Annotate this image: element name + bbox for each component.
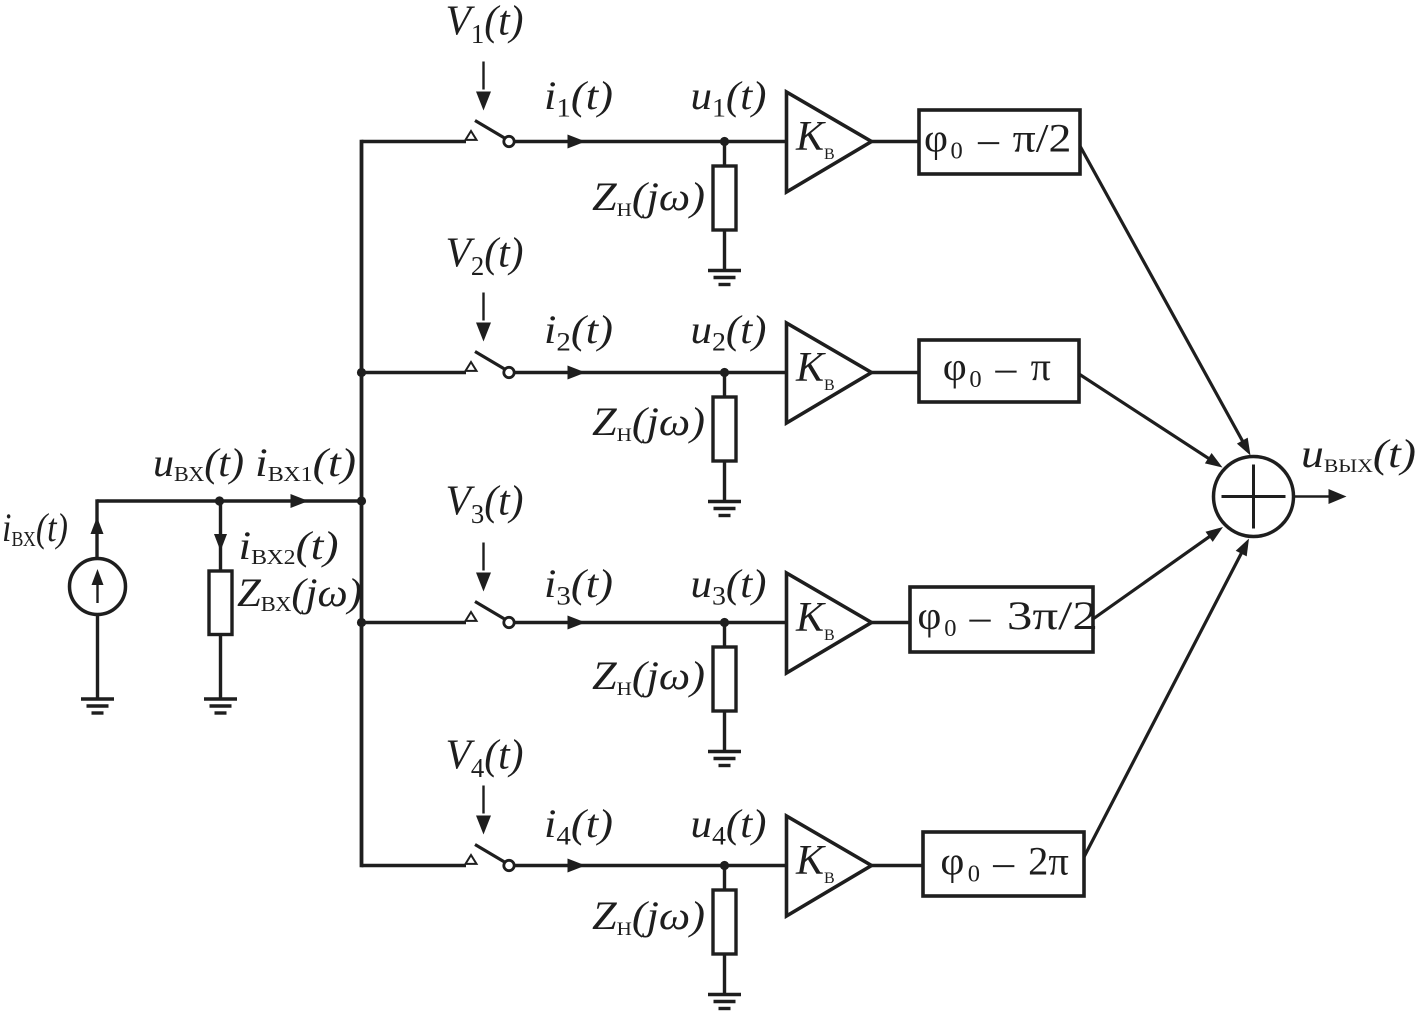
wire load to ground branch 4 <box>723 954 726 995</box>
svg-text:0: 0 <box>969 366 981 393</box>
svg-text:0: 0 <box>944 615 956 642</box>
switch S3 fixed contact triangle <box>466 612 477 621</box>
phase shifter box 1 <box>919 110 1080 174</box>
label phase box 3 <box>917 593 1098 643</box>
svg-text:ZН​(jω): ZН​(jω) <box>592 399 705 446</box>
arrow i1 on wire <box>568 135 586 149</box>
svg-text:ZН​(jω): ZН​(jω) <box>592 893 705 940</box>
switch S1 fixed contact triangle <box>466 131 477 140</box>
phase shifter box 3 <box>910 587 1093 652</box>
wire switch to amp branch 3 <box>515 621 788 624</box>
svg-text:π: π <box>1031 344 1051 389</box>
wire bus to switch branch 2 <box>362 371 467 374</box>
wire amp to phase box branch 4 <box>872 864 924 867</box>
wire phase box 3 to summer <box>1093 534 1213 619</box>
switch S1 open contact circle <box>504 136 514 146</box>
label phase box 1 <box>924 116 1071 166</box>
wire load to ground branch 3 <box>723 711 726 752</box>
svg-text:φ: φ <box>943 344 967 389</box>
wire switch to amp branch 4 <box>515 864 788 867</box>
current-source stem <box>95 499 98 559</box>
svg-text:−: − <box>993 349 1019 394</box>
wire phase box 1 to summer <box>1080 146 1245 445</box>
vertical bus wire <box>360 140 364 868</box>
svg-text:ZН​(jω): ZН​(jω) <box>592 653 705 700</box>
svg-text:V3​(t): V3​(t) <box>446 479 524 530</box>
wire source to ground <box>96 615 99 700</box>
label phase box 2 <box>943 344 1051 394</box>
svg-text:iВХ​(t): iВХ​(t) <box>2 505 68 551</box>
arrowhead into summer from box 2 <box>1205 453 1223 468</box>
svg-text:−: − <box>976 121 1002 166</box>
arrowhead into summer from box 1 <box>1237 438 1251 456</box>
current source I input wire <box>97 499 362 502</box>
wire amp to phase box branch 2 <box>872 371 920 374</box>
junction dot bus branch2 <box>357 368 366 377</box>
svg-text:u1​(t): u1​(t) <box>691 73 767 123</box>
svg-text:2π: 2π <box>1028 839 1069 884</box>
amplifier K1 triangle <box>787 92 872 192</box>
ground branch 3 <box>708 752 741 766</box>
summer plus sign <box>1222 465 1286 529</box>
summer circle <box>1214 457 1294 537</box>
arrow up on source stem <box>91 517 104 534</box>
wire phase box 2 to summer <box>1079 374 1212 461</box>
svg-text:V4​(t): V4​(t) <box>446 733 524 784</box>
wire amp to phase box branch 3 <box>872 621 911 624</box>
svg-text:φ: φ <box>940 839 964 884</box>
wire phase box 4 to summer <box>1084 549 1243 857</box>
svg-text:φ: φ <box>924 116 948 161</box>
control arrow V3 <box>476 543 491 592</box>
control arrow V1 <box>476 62 491 111</box>
node dot u2 <box>720 368 729 377</box>
wire load to ground branch 2 <box>723 461 726 502</box>
amplifier K4 triangle <box>787 816 872 916</box>
ground branch 1 <box>708 271 741 285</box>
wire node to load Z branch 3 <box>723 623 726 649</box>
amplifier K2 triangle <box>787 323 872 423</box>
wire switch to amp branch 1 <box>515 140 788 143</box>
node dot u1 <box>720 137 729 146</box>
load impedance Zn branch 2 <box>713 397 736 461</box>
svg-text:iВХ2​(t): iВХ2​(t) <box>239 523 339 569</box>
svg-text:u3​(t): u3​(t) <box>691 561 767 611</box>
output arrowhead <box>1329 489 1347 504</box>
svg-text:V1​(t): V1​(t) <box>446 0 524 49</box>
switch S1 blade <box>475 121 505 139</box>
svg-text:i2​(t): i2​(t) <box>544 307 613 357</box>
node dot u3 <box>720 618 729 627</box>
current source internal arrow <box>92 569 104 603</box>
ground below Zvx <box>204 699 237 713</box>
svg-text:ZН​(jω): ZН​(jω) <box>592 174 705 221</box>
svg-text:π/2: π/2 <box>1013 116 1072 161</box>
wire node to load Z branch 1 <box>723 142 726 168</box>
arrow i4 on wire <box>568 859 586 873</box>
ground branch 2 <box>708 502 741 516</box>
svg-text:ZВХ​(jω): ZВХ​(jω) <box>237 570 362 616</box>
switch S2 open contact circle <box>504 367 514 377</box>
load impedance Zn branch 3 <box>713 647 736 711</box>
svg-text:i3​(t): i3​(t) <box>544 561 613 611</box>
svg-text:−: − <box>967 598 993 643</box>
svg-text:iВХ1​(t): iВХ1​(t) <box>255 440 356 486</box>
ground branch 4 <box>708 995 741 1009</box>
svg-text:0: 0 <box>968 861 980 888</box>
svg-text:−: − <box>991 844 1017 889</box>
switch S3 blade <box>475 602 505 620</box>
current source circle <box>70 559 126 615</box>
junction dot bus branch3 <box>357 618 366 627</box>
svg-text:i1​(t): i1​(t) <box>544 73 613 123</box>
wire amp to phase box branch 1 <box>872 140 920 143</box>
arrowhead into summer from box 4 <box>1236 539 1249 557</box>
phase shifter box 2 <box>919 340 1079 402</box>
svg-text:V2​(t): V2​(t) <box>446 231 524 282</box>
wire node to Zvx <box>219 501 222 571</box>
node dot u_vx <box>215 496 224 505</box>
wire switch to amp branch 2 <box>515 371 788 374</box>
svg-text:uВХ​(t): uВХ​(t) <box>153 440 244 486</box>
wire load to ground branch 1 <box>723 230 726 271</box>
label phase box 4 <box>940 839 1068 889</box>
wire bus to switch branch 3 <box>362 621 467 624</box>
ground below current source <box>81 699 114 713</box>
svg-text:uВЫХ​(t): uВЫХ​(t) <box>1301 431 1416 477</box>
arrowhead into summer from box 3 <box>1206 527 1224 542</box>
load impedance Zn branch 1 <box>713 166 736 230</box>
switch S4 fixed contact triangle <box>466 855 477 864</box>
switch S4 open contact circle <box>504 860 514 870</box>
amplifier K3 triangle <box>787 573 872 673</box>
svg-text:3π/2: 3π/2 <box>1007 593 1098 638</box>
wire node to load Z branch 2 <box>723 373 726 399</box>
arrow i2 on wire <box>568 366 586 380</box>
output wire <box>1294 495 1333 498</box>
junction dot input-bus <box>357 496 366 505</box>
svg-text:i4​(t): i4​(t) <box>544 801 613 851</box>
switch S2 blade <box>475 352 505 370</box>
svg-text:u2​(t): u2​(t) <box>691 307 767 357</box>
svg-text:u4​(t): u4​(t) <box>691 801 767 851</box>
wire Zvx to ground <box>219 635 222 700</box>
arrow down i_vx2 <box>214 534 227 551</box>
arrow i3 on wire <box>568 616 586 630</box>
phase shifter box 4 <box>923 832 1084 896</box>
control arrow V4 <box>476 786 491 835</box>
switch S4 blade <box>475 845 505 863</box>
switch S3 open contact circle <box>504 617 514 627</box>
wire bus to switch branch 4 <box>362 864 467 867</box>
load impedance Zn branch 4 <box>713 890 736 954</box>
svg-text:0: 0 <box>951 138 963 165</box>
node dot u4 <box>720 861 729 870</box>
control arrow V2 <box>476 293 491 342</box>
svg-text:φ: φ <box>917 593 941 638</box>
impedance Zvx rectangle <box>209 571 232 635</box>
wire node to load Z branch 4 <box>723 866 726 892</box>
arrow i_vx1 on input wire <box>291 494 309 508</box>
wire bus to switch branch 1 <box>362 140 467 143</box>
switch S2 fixed contact triangle <box>466 362 477 371</box>
